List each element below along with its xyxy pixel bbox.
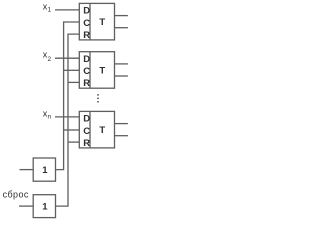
svg-text:2: 2 [48, 56, 52, 63]
wire U1 output Q [115, 15, 128, 17]
flip-flop U1 control field divider [89, 3, 91, 40]
svg-text:R: R [83, 78, 90, 89]
wire R-bus tap to U2 pin R [68, 81, 79, 83]
svg-text:D: D [83, 114, 90, 125]
svg-text:1: 1 [48, 7, 52, 14]
svg-text:1: 1 [42, 202, 48, 213]
svg-text:C: C [83, 18, 90, 29]
flip-flop U2 body (T-trigger) [79, 52, 114, 88]
flip-flop U1 body (T-trigger) [79, 3, 114, 40]
svg-text:C: C [83, 126, 90, 137]
node x1 input wire [55, 9, 79, 11]
svg-text:1: 1 [42, 165, 48, 176]
wire U2 output Q [115, 63, 128, 65]
wire R-bus vertical from OR gate 2 output up to U1 pin R [56, 34, 80, 206]
node xn input wire [55, 116, 79, 118]
node x2 input wire [55, 57, 79, 59]
wire G2 input (sbros) [19, 205, 33, 207]
flip-flop U2 control field divider [89, 52, 91, 88]
svg-text:сброс: сброс [3, 190, 29, 200]
svg-text:n: n [48, 114, 52, 121]
svg-text:T: T [99, 125, 105, 136]
wire U1 output notQ [115, 27, 128, 29]
OR gate G2 body (reset) [33, 195, 55, 218]
wire U3 output notQ [115, 135, 128, 137]
svg-text:T: T [99, 17, 105, 28]
wire C-bus tap to U3 pin C [64, 129, 80, 131]
OR gate G1 body [33, 158, 55, 181]
svg-text:R: R [83, 30, 90, 41]
flip-flop U3 body (T-trigger) [79, 111, 114, 147]
wire U3 output Q [115, 123, 128, 125]
svg-text:D: D [83, 54, 90, 65]
ellipsis between U2 and U3 [97, 94, 99, 96]
svg-text:D: D [83, 6, 90, 17]
wire U2 output notQ [115, 75, 128, 77]
wire G1 input [20, 169, 34, 171]
wire C-bus tap to U2 pin C [64, 69, 80, 71]
flip-flop U3 control field divider [89, 111, 91, 147]
wire R-bus tap to U3 pin R [68, 141, 79, 143]
svg-text:R: R [83, 138, 90, 149]
svg-text:T: T [99, 65, 105, 76]
wire C-bus vertical from OR gate 1 output up to U1 pin C [56, 22, 80, 170]
svg-text:C: C [83, 66, 90, 77]
